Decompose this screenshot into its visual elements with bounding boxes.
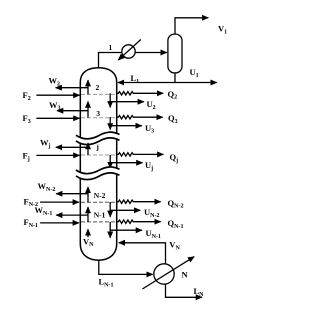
wire W3 sidedraw bbox=[57, 110, 88, 112]
liquid down arrow below tray j bbox=[109, 155, 111, 168]
svg-text:W3: W3 bbox=[49, 100, 61, 112]
svg-text:1: 1 bbox=[109, 43, 113, 52]
svg-text:U3: U3 bbox=[145, 123, 154, 135]
svg-text:VN: VN bbox=[169, 240, 180, 252]
svg-text:Uj: Uj bbox=[145, 160, 153, 172]
reboiler N circle bbox=[142, 257, 194, 289]
column break lower bbox=[76, 167, 120, 180]
wire Wj sidedraw bbox=[56, 146, 88, 148]
svg-text:U1: U1 bbox=[190, 67, 199, 79]
vapor up arrow stage 3 bbox=[87, 102, 89, 118]
wire LN-1 bottoms to reboiler bbox=[99, 260, 153, 274]
svg-text:FN-1: FN-1 bbox=[24, 217, 39, 229]
tray line stage N-2/N-1 bbox=[81, 201, 116, 203]
liquid down arrow below tray N-2 bbox=[109, 202, 111, 217]
vapor up arrow stage 2 bbox=[87, 80, 89, 94]
wire FN-2 feed bbox=[40, 201, 79, 203]
svg-text:V1: V1 bbox=[218, 24, 227, 36]
vapor up arrow VN boilup bbox=[87, 229, 89, 237]
wire U1 distillate bbox=[175, 82, 217, 84]
svg-text:WN-2: WN-2 bbox=[38, 181, 56, 193]
svg-text:VN: VN bbox=[83, 236, 94, 248]
svg-text:LN: LN bbox=[194, 286, 205, 298]
condenser circle bbox=[118, 40, 141, 61]
svg-text:Wj: Wj bbox=[40, 138, 51, 150]
liquid down arrow below tray N-1 bbox=[109, 222, 111, 238]
svg-text:N-1: N-1 bbox=[94, 210, 106, 219]
resistor QN-1 heat bbox=[117, 220, 161, 223]
wire L1 reflux to column bbox=[118, 82, 175, 84]
wire Fj feed bbox=[36, 154, 79, 156]
svg-text:QN-2: QN-2 bbox=[168, 198, 184, 210]
wire LN bottoms product bbox=[166, 284, 202, 297]
svg-text:3: 3 bbox=[96, 109, 100, 118]
wire WN-1 sidedraw bbox=[56, 214, 88, 216]
svg-text:F2: F2 bbox=[23, 90, 31, 102]
tray line stage N-1 bottom bbox=[81, 221, 116, 223]
svg-text:Q3: Q3 bbox=[168, 113, 178, 125]
wire VN return from reboiler bbox=[119, 243, 166, 264]
wire stream 1 riser bbox=[99, 53, 167, 68]
wire FN-1 feed bbox=[40, 222, 79, 224]
wire V1 vapor product bbox=[175, 18, 208, 34]
resistor Qj heat bbox=[117, 153, 164, 156]
wire UN-2 sidedraw bbox=[110, 209, 140, 211]
svg-text:WN-1: WN-1 bbox=[35, 205, 53, 217]
vapor up arrow stage j bbox=[87, 143, 89, 155]
wire F3 feed bbox=[36, 117, 79, 119]
tray line stage 2/3 bbox=[81, 93, 116, 95]
svg-text:N-2: N-2 bbox=[94, 191, 106, 200]
resistor QN-2 heat bbox=[117, 200, 161, 203]
svg-text:N: N bbox=[182, 270, 189, 280]
svg-text:UN-2: UN-2 bbox=[144, 207, 159, 219]
svg-text:j: j bbox=[95, 142, 99, 151]
column shell bbox=[80, 68, 116, 260]
wire drum outlet bbox=[174, 73, 176, 83]
wire Uj sidedraw bbox=[110, 162, 142, 164]
tray line stage 3 bottom bbox=[81, 117, 116, 119]
svg-text:Q2: Q2 bbox=[168, 89, 178, 101]
column break upper bbox=[76, 132, 120, 144]
wire UN-1 sidedraw bbox=[110, 229, 142, 231]
wire U2 sidedraw bbox=[110, 101, 144, 103]
vapor up arrow stage N-1 bbox=[87, 207, 89, 222]
svg-text:2: 2 bbox=[96, 83, 100, 92]
resistor Q2 heat bbox=[117, 92, 163, 95]
wire U3 sidedraw bbox=[110, 125, 142, 127]
reflux drum U1 bbox=[168, 34, 182, 73]
liquid down arrow below tray 3 bbox=[109, 117, 111, 129]
liquid down arrow below tray 2 bbox=[109, 93, 111, 107]
svg-text:U2: U2 bbox=[147, 99, 156, 111]
wire F2 feed bbox=[36, 94, 79, 96]
resistor Q3 heat bbox=[117, 116, 163, 119]
tray line stage j bottom bbox=[81, 154, 116, 156]
svg-text:UN-1: UN-1 bbox=[146, 228, 161, 240]
svg-text:F3: F3 bbox=[23, 113, 31, 125]
svg-text:Fj: Fj bbox=[23, 151, 30, 163]
svg-text:W2: W2 bbox=[49, 76, 61, 88]
svg-text:Qj: Qj bbox=[170, 152, 179, 164]
svg-text:LN-1: LN-1 bbox=[99, 277, 114, 289]
vapor up arrow stage N-2 bbox=[87, 187, 89, 202]
wire W2 sidedraw bbox=[56, 87, 88, 89]
svg-text:QN-1: QN-1 bbox=[168, 218, 184, 230]
wire WN-2 sidedraw bbox=[56, 193, 88, 195]
